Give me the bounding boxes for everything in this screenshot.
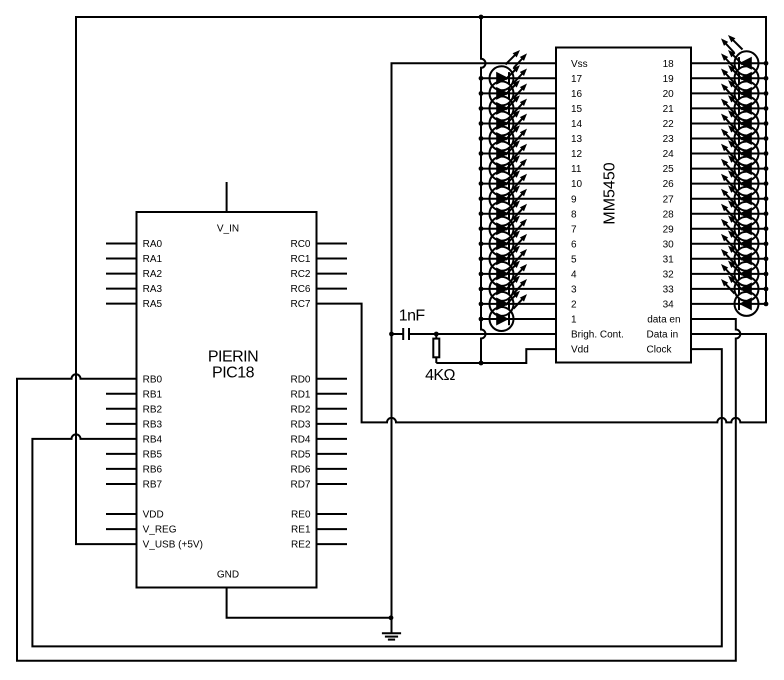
svg-text:24: 24: [663, 149, 675, 160]
svg-text:V_USB (+5V): V_USB (+5V): [143, 540, 203, 551]
svg-text:PIERIN: PIERIN: [208, 348, 258, 365]
svg-text:RB4: RB4: [143, 435, 163, 446]
svg-text:19: 19: [663, 74, 675, 85]
svg-text:RC6: RC6: [290, 284, 310, 295]
svg-text:1: 1: [571, 315, 577, 326]
svg-text:RE2: RE2: [291, 540, 311, 551]
svg-text:Data in: Data in: [647, 330, 679, 341]
svg-text:33: 33: [663, 285, 675, 296]
svg-text:9: 9: [571, 194, 577, 205]
svg-text:16: 16: [571, 89, 583, 100]
svg-text:VDD: VDD: [143, 510, 164, 521]
svg-text:RA2: RA2: [143, 269, 163, 280]
svg-text:MM5450: MM5450: [602, 162, 619, 224]
svg-text:5: 5: [571, 254, 577, 265]
svg-text:RA0: RA0: [143, 239, 163, 250]
svg-text:Vss: Vss: [571, 59, 588, 70]
svg-text:22: 22: [663, 119, 675, 130]
svg-text:27: 27: [663, 194, 675, 205]
svg-text:RC0: RC0: [290, 239, 310, 250]
svg-text:11: 11: [571, 164, 582, 175]
svg-text:Vdd: Vdd: [571, 345, 589, 356]
svg-text:RB7: RB7: [143, 480, 163, 491]
svg-text:31: 31: [663, 254, 675, 265]
svg-text:RB1: RB1: [143, 389, 163, 400]
svg-text:32: 32: [663, 270, 675, 281]
svg-text:8: 8: [571, 209, 577, 220]
svg-text:20: 20: [663, 89, 675, 100]
svg-text:17: 17: [571, 74, 583, 85]
svg-text:RC2: RC2: [290, 269, 310, 280]
svg-text:4KΩ: 4KΩ: [425, 367, 455, 384]
svg-text:23: 23: [663, 134, 675, 145]
svg-text:10: 10: [571, 179, 583, 190]
svg-text:RD1: RD1: [290, 389, 310, 400]
svg-text:29: 29: [663, 224, 675, 235]
svg-text:RC7: RC7: [290, 299, 310, 310]
svg-text:6: 6: [571, 239, 577, 250]
svg-text:RE1: RE1: [291, 525, 311, 536]
svg-text:3: 3: [571, 285, 577, 296]
svg-text:30: 30: [663, 239, 675, 250]
svg-text:4: 4: [571, 270, 577, 281]
svg-text:RD5: RD5: [290, 450, 310, 461]
svg-text:14: 14: [571, 119, 583, 130]
svg-text:RD2: RD2: [290, 404, 310, 415]
svg-text:RD4: RD4: [290, 435, 310, 446]
svg-text:Clock: Clock: [647, 345, 673, 356]
svg-text:RC1: RC1: [290, 254, 310, 265]
svg-text:RB3: RB3: [143, 420, 163, 431]
svg-text:data en: data en: [647, 315, 680, 326]
svg-text:12: 12: [571, 149, 583, 160]
svg-text:RD7: RD7: [290, 480, 310, 491]
svg-text:15: 15: [571, 104, 583, 115]
svg-text:7: 7: [571, 224, 577, 235]
svg-text:RE0: RE0: [291, 510, 311, 521]
svg-text:Brigh. Cont.: Brigh. Cont.: [571, 330, 624, 341]
svg-text:RB2: RB2: [143, 404, 163, 415]
svg-text:RD6: RD6: [290, 465, 310, 476]
svg-text:RB6: RB6: [143, 465, 163, 476]
svg-text:RB5: RB5: [143, 450, 163, 461]
svg-text:18: 18: [663, 59, 675, 70]
svg-text:1nF: 1nF: [399, 307, 426, 324]
svg-text:25: 25: [663, 164, 675, 175]
svg-text:RA5: RA5: [143, 299, 163, 310]
svg-text:V_IN: V_IN: [217, 224, 239, 235]
svg-text:34: 34: [663, 300, 675, 311]
svg-text:26: 26: [663, 179, 675, 190]
svg-text:RA3: RA3: [143, 284, 163, 295]
svg-text:21: 21: [663, 104, 675, 115]
svg-text:GND: GND: [217, 569, 239, 580]
svg-text:2: 2: [571, 300, 577, 311]
svg-text:RA1: RA1: [143, 254, 163, 265]
svg-text:13: 13: [571, 134, 583, 145]
svg-text:V_REG: V_REG: [143, 525, 177, 536]
svg-text:28: 28: [663, 209, 675, 220]
svg-text:RD0: RD0: [290, 374, 310, 385]
svg-text:PIC18: PIC18: [212, 365, 255, 382]
svg-text:RD3: RD3: [290, 420, 310, 431]
svg-text:RB0: RB0: [143, 374, 163, 385]
